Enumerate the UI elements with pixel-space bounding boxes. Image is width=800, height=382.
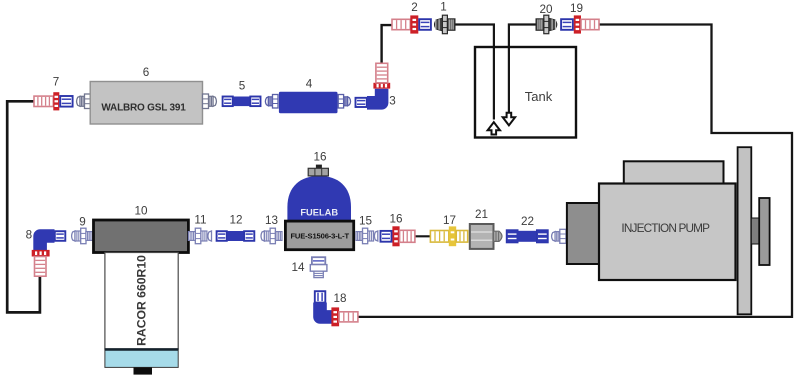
fitting 13: [261, 228, 282, 244]
fitting 2 hose barb: [392, 19, 410, 29]
elbow 8 hose clamp: [32, 250, 50, 257]
injection pump body: [599, 184, 736, 281]
svg-text:FUELAB: FUELAB: [300, 207, 338, 217]
injection pump inlet flange: [567, 203, 599, 264]
regulator FUE-S1506-3-L-T body: [285, 221, 353, 250]
svg-text:9: 9: [79, 216, 86, 229]
fitting 2 AN adapter: [419, 19, 431, 30]
svg-text:21: 21: [475, 208, 488, 221]
fitting 19 hose barb: [581, 19, 599, 29]
tank: [475, 47, 576, 138]
return arrow (down) in tank: [503, 113, 515, 126]
fitting 12 union: [217, 231, 227, 241]
svg-text:7: 7: [53, 76, 60, 89]
pump inlet fitting: [552, 229, 566, 243]
wire: elbow 3 riser to fitting 2: [382, 25, 393, 64]
svg-text:INJECTION PUMP: INJECTION PUMP: [621, 221, 710, 235]
svg-text:6: 6: [143, 66, 150, 79]
wire: fitting 16 to fitting 17: [415, 235, 431, 237]
svg-text:3: 3: [389, 95, 396, 108]
injection pump shaft coupler: [751, 218, 759, 244]
elbow 18 hose clamp: [331, 307, 339, 326]
filter 21 outlet barb: [494, 231, 503, 241]
svg-text:4: 4: [306, 78, 313, 91]
elbow 3 body: [367, 89, 382, 103]
filter 21 body: [470, 224, 494, 249]
fitting 19 hose clamp: [574, 15, 581, 33]
pickup arrow (up) in tank: [488, 122, 500, 134]
check valve 4 inlet fitting: [265, 95, 278, 109]
svg-text:RACOR 660R10: RACOR 660R10: [135, 255, 149, 346]
fitting 7 hose clamp: [53, 92, 59, 110]
wire: fitting 1 to tank pickup: [455, 25, 494, 120]
filter 10 bowl: [105, 349, 178, 368]
fitting 15: [356, 228, 378, 244]
svg-text:FUE-S1506-3-L-T: FUE-S1506-3-L-T: [290, 231, 349, 240]
fitting 1 flare adapter: [435, 15, 456, 34]
injection pump drive hub: [759, 198, 769, 265]
svg-text:11: 11: [194, 214, 206, 227]
fitting 19 AN adapter: [561, 19, 573, 30]
elbow 3 hose clamp: [373, 83, 390, 89]
svg-text:WALBRO GSL 391: WALBRO GSL 391: [101, 103, 186, 114]
fitting 16 hose clamp: [392, 226, 399, 246]
elbow 8 body: [40, 236, 54, 250]
fitting 16 hose barb: [400, 230, 415, 242]
pump 6 WALBRO GSL 391: [90, 82, 202, 125]
svg-text:1: 1: [440, 1, 447, 14]
svg-text:8: 8: [26, 229, 33, 242]
fitting 11: [188, 228, 211, 244]
svg-text:12: 12: [229, 214, 242, 227]
regulator vent fitting 16 (top): [316, 165, 322, 169]
fitting 20 flare adapter: [536, 15, 557, 34]
check valve 4 outlet fitting: [338, 95, 350, 109]
elbow 8 AN adapter: [55, 231, 66, 241]
elbow 3 hose barb: [376, 63, 388, 83]
svg-text:20: 20: [539, 3, 553, 16]
elbow 18 AN adapter: [315, 291, 326, 302]
fitting 16 AN adapter: [381, 231, 392, 242]
svg-text:Tank: Tank: [525, 89, 553, 104]
fitting 9: [72, 228, 93, 244]
wire: tank return to fitting 20: [509, 25, 537, 114]
wire: pump outlet loop (fitting 7 to elbow 8 via left/bottom): [7, 101, 40, 312]
filter 10 head: [94, 220, 189, 253]
fitting 7 hose barb: [34, 96, 53, 106]
fitting 22 union: [506, 230, 518, 243]
filter 10 drain: [134, 367, 153, 374]
svg-text:17: 17: [443, 214, 456, 227]
svg-text:19: 19: [570, 2, 583, 15]
fitting 14 (regulator bottom port): [312, 257, 325, 264]
regulator FUELAB dome: [287, 176, 351, 222]
fitting 5 union: [223, 97, 233, 107]
injection pump top housing: [624, 161, 724, 183]
svg-text:14: 14: [291, 261, 305, 274]
injection pump mounting flange: [738, 147, 752, 314]
check valve 4 body: [279, 92, 338, 114]
svg-text:5: 5: [239, 80, 246, 93]
svg-text:16: 16: [313, 151, 326, 164]
elbow 3 AN adapter: [356, 98, 367, 107]
fitting 2 hose clamp: [410, 15, 418, 33]
svg-text:15: 15: [359, 215, 373, 228]
pump 6 inlet fitting: [77, 94, 91, 109]
svg-text:2: 2: [411, 1, 418, 14]
fitting 17 clamp: [449, 226, 456, 246]
elbow 18 hose barb: [339, 312, 358, 322]
svg-text:10: 10: [134, 205, 148, 218]
svg-text:18: 18: [333, 292, 346, 305]
fitting 17 hose (right): [456, 231, 468, 243]
filter 10 RACOR 660R10 body: [105, 253, 178, 349]
svg-text:13: 13: [265, 214, 278, 227]
wire: fitting 19 around right side to elbow 18: [358, 25, 793, 317]
elbow 18 body: [320, 303, 332, 317]
fitting 7 AN adapter: [60, 96, 72, 107]
fitting 17 hose: [430, 231, 448, 243]
svg-text:22: 22: [521, 215, 534, 228]
elbow 8 hose barb: [35, 257, 47, 277]
pump 6 outlet fitting: [203, 94, 217, 109]
svg-text:16: 16: [389, 213, 402, 226]
